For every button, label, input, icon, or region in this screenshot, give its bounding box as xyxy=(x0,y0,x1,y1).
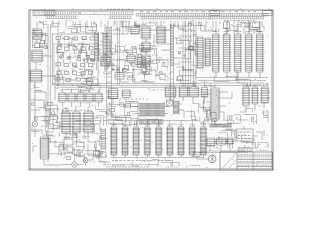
IC U3 xyxy=(29,70,42,82)
module inner parts xyxy=(56,37,95,82)
rail A xyxy=(47,24,49,162)
misc wiring upper-left xyxy=(60,27,96,33)
bottom notes row2 xyxy=(106,166,150,168)
clutter left-lower xyxy=(32,103,60,136)
delay line DL1 xyxy=(174,101,180,115)
IC U22 xyxy=(188,87,199,97)
clutter right-lower xyxy=(204,106,267,148)
IC U30 RAM xyxy=(110,127,117,155)
cluster wires xyxy=(58,98,126,167)
misc wiring bottom-strip xyxy=(112,159,179,166)
latch label 45 xyxy=(246,31,252,33)
module boundary box xyxy=(53,34,99,85)
clutter left-top-col xyxy=(33,21,47,49)
IC U1 xyxy=(32,29,43,40)
right gate wires xyxy=(170,83,204,104)
IC U52 xyxy=(215,138,226,145)
clutter under-band-2 xyxy=(121,21,140,27)
module extra parts xyxy=(77,50,95,62)
long signal wires xyxy=(52,84,200,88)
IC U2 xyxy=(31,50,43,62)
latch label 42 xyxy=(213,31,219,33)
IC U11 xyxy=(100,56,111,66)
trio wires xyxy=(66,106,99,142)
IC U8 xyxy=(141,42,151,52)
IC U14 pair xyxy=(115,73,124,80)
address bus extension xyxy=(170,67,173,101)
misc wiring center-top xyxy=(110,44,157,54)
clutter bottom-left xyxy=(55,135,107,165)
RAM label 37 xyxy=(190,124,195,126)
right gate row labels xyxy=(166,84,206,86)
RAM label 30 xyxy=(111,124,116,126)
resistors R10-R11 xyxy=(64,138,73,154)
top bus drop wires xyxy=(52,21,262,29)
clutter under-band-left xyxy=(53,20,96,27)
test box TB1 xyxy=(236,129,253,141)
far right labels xyxy=(243,84,268,86)
resistor network RN2 xyxy=(139,111,165,117)
IC U31 RAM xyxy=(121,127,128,155)
RAM label 33 xyxy=(145,124,150,126)
edge connector J2 xyxy=(209,124,232,127)
top bus band row1 mid xyxy=(81,12,134,15)
clutter right-of-module xyxy=(100,33,106,55)
IC U38 RAM xyxy=(200,127,207,155)
top sheet caption xyxy=(107,8,133,10)
bottom bus line xyxy=(196,151,248,152)
IC U9 xyxy=(141,55,151,65)
IC U49 xyxy=(260,87,269,103)
left wires xyxy=(31,22,60,165)
misc wiring lower-left xyxy=(42,102,100,158)
buffer column xyxy=(101,128,106,150)
IC U18 gate row xyxy=(85,93,94,102)
misc wiring bottom-center xyxy=(109,115,196,124)
RAM bottom bus xyxy=(110,155,204,158)
bottom notes row3 xyxy=(110,168,140,170)
title block xyxy=(220,152,273,170)
misc wiring top-under-band xyxy=(134,21,176,26)
rail C xyxy=(57,24,59,88)
clutter center xyxy=(100,46,168,82)
paper scan tint xyxy=(30,11,273,170)
RAM label 38 xyxy=(201,124,206,126)
center wires xyxy=(100,48,166,78)
RAM top wires xyxy=(114,121,204,128)
vertical wire bundle right-center xyxy=(183,22,196,90)
IC U12 xyxy=(126,55,136,62)
IC U7 xyxy=(141,27,151,39)
IC U23 xyxy=(201,88,209,98)
latch label 44 xyxy=(235,31,241,33)
buffer strip A xyxy=(95,32,99,62)
IC U27 xyxy=(108,89,119,99)
IC U37 RAM xyxy=(189,127,196,155)
misc wiring right-mid xyxy=(205,70,268,86)
wire bundle horizontal taps xyxy=(178,36,196,70)
diode CR1 xyxy=(32,44,43,48)
IC U24 xyxy=(61,112,71,133)
misc wiring right-band xyxy=(223,110,268,124)
sheet border frame xyxy=(29,10,273,170)
RAM label 36 xyxy=(179,124,184,126)
vertical wire pair center xyxy=(118,27,120,85)
IC U6 xyxy=(130,26,140,34)
vertical data bus left xyxy=(107,26,112,59)
center-top wires xyxy=(110,21,170,60)
RAM caption xyxy=(112,159,170,161)
IC U28 xyxy=(121,90,131,98)
border zone ticks xyxy=(45,8,269,10)
misc labels xyxy=(45,30,219,128)
lower-left boxes xyxy=(59,145,106,157)
clutter upper-right xyxy=(179,22,263,32)
mixer box X1 xyxy=(167,100,173,106)
resistor network RN1 xyxy=(139,104,165,110)
latch bottom bus xyxy=(196,72,268,86)
misc wiring right-gap xyxy=(177,41,196,84)
IC U42 latch xyxy=(212,34,220,72)
clutter ram-top xyxy=(104,102,138,126)
clutter right-gap xyxy=(176,34,196,86)
transistor Q2 xyxy=(72,162,77,167)
misc wiring right-low-gap xyxy=(186,101,208,124)
label box top-right-b xyxy=(263,11,273,16)
bottom mark B xyxy=(190,165,200,167)
IC U21 xyxy=(178,87,188,97)
misc wiring left-gap xyxy=(31,31,48,48)
RAM label 32 xyxy=(134,124,139,126)
misc wiring center-low xyxy=(95,106,108,126)
IC U10 dense xyxy=(156,26,166,44)
RAM label 35 xyxy=(167,124,172,126)
IC U34 RAM xyxy=(155,127,162,155)
latch label 43 xyxy=(224,31,230,33)
misc wiring upper-right xyxy=(178,23,264,31)
misc wiring left-mid-gap xyxy=(34,105,60,136)
IC U20 xyxy=(164,87,176,97)
IC U47 xyxy=(242,87,250,106)
transistor Q3 xyxy=(83,158,88,163)
bottom notes row1 xyxy=(103,164,150,166)
IC U19 gate row xyxy=(94,93,103,102)
gate row wires xyxy=(63,89,99,107)
module wires xyxy=(54,39,94,82)
IC U13 xyxy=(136,58,146,68)
misc wiring right-col-gap xyxy=(200,104,210,122)
IC U17 gate row xyxy=(76,93,85,102)
RAM label 34 xyxy=(156,124,161,126)
center-top drop wires xyxy=(114,21,129,35)
right small parts xyxy=(224,21,260,35)
IC U51 xyxy=(206,138,216,146)
relay box K1 xyxy=(194,152,209,159)
module clutter xyxy=(55,38,97,84)
top bus band row2 mid xyxy=(108,16,132,19)
IC U43 latch xyxy=(223,34,231,72)
IC U25 xyxy=(72,112,81,133)
top bus band row2 right xyxy=(140,17,264,19)
bottom mark A xyxy=(166,166,179,168)
rail B xyxy=(49,24,51,120)
U50 wires xyxy=(204,84,232,124)
IC U33 RAM xyxy=(144,127,151,155)
IC U45 latch xyxy=(245,34,253,72)
bottom right wires xyxy=(210,126,264,151)
notes box xyxy=(238,148,252,152)
top bus band row1 right xyxy=(136,13,268,16)
vertical address bus xyxy=(170,24,173,67)
connector P1 xyxy=(208,155,216,163)
label box top-right-a xyxy=(210,11,220,16)
far right wires xyxy=(240,84,270,112)
clutter mid-band xyxy=(34,84,100,92)
IC U26 xyxy=(83,112,94,133)
misc wiring module-south xyxy=(63,78,98,90)
IC U41 xyxy=(204,38,211,66)
RN wires xyxy=(132,104,184,118)
IC U40 xyxy=(196,37,204,68)
resistor network RN3 xyxy=(139,120,163,125)
top bus labels xyxy=(140,10,256,12)
trio labels xyxy=(62,109,92,111)
vertical data bus left lower xyxy=(107,59,112,100)
misc wiring center-gap xyxy=(108,101,138,124)
sheet note text xyxy=(256,149,268,151)
IC U35 RAM xyxy=(166,127,173,155)
IC U46 latch xyxy=(256,34,264,72)
top bus band row1 left xyxy=(43,12,81,15)
IC U48 xyxy=(251,87,258,104)
transistor Q1 xyxy=(32,121,37,126)
IC U15 gate row xyxy=(58,93,67,102)
misc wiring center xyxy=(104,63,168,82)
IC U32 RAM xyxy=(133,127,140,155)
title label box top-left xyxy=(33,11,55,16)
IC U4 tall xyxy=(39,137,49,159)
strip feed wires xyxy=(97,24,105,70)
RAM label 31 xyxy=(123,124,128,126)
scan speckle xyxy=(30,12,271,168)
small caps row xyxy=(112,69,134,72)
data bus to RAM xyxy=(107,100,112,126)
IC U16 gate row xyxy=(67,93,76,102)
buffer strip B xyxy=(103,32,107,62)
IC U44 latch xyxy=(234,34,242,72)
latch label 46 xyxy=(257,31,263,33)
misc wiring bottom-right xyxy=(213,130,268,148)
IC U53 xyxy=(226,138,234,144)
latch top wires xyxy=(216,21,260,34)
IC U36 RAM xyxy=(177,127,184,155)
bus stubs xyxy=(160,26,188,64)
RAM row feed wire xyxy=(103,120,199,122)
IC U50 tall xyxy=(210,88,220,120)
top bus band row2 left xyxy=(45,16,77,19)
